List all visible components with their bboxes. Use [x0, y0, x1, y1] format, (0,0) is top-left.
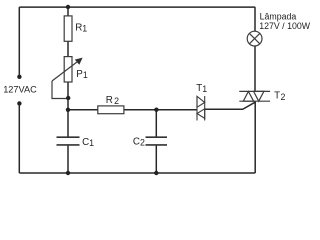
svg-text:R1: R1: [75, 23, 87, 34]
svg-text:C1: C1: [82, 137, 94, 148]
svg-text:C2: C2: [133, 136, 145, 147]
svg-text:127VAC: 127VAC: [3, 85, 37, 95]
svg-text:R2: R2: [106, 95, 119, 106]
svg-text:T2: T2: [274, 91, 285, 102]
svg-text:T1: T1: [196, 83, 207, 94]
svg-text:Lâmpada: Lâmpada: [260, 12, 297, 22]
svg-text:P1: P1: [76, 69, 88, 80]
svg-text:127V / 100W: 127V / 100W: [259, 21, 311, 31]
